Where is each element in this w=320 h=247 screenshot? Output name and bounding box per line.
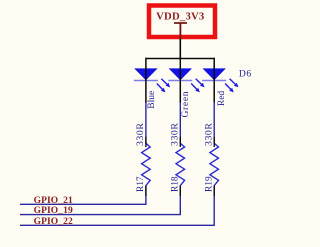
svg-text:Green: Green <box>181 91 191 118</box>
svg-text:330R: 330R <box>204 123 215 146</box>
svg-text:Red: Red <box>217 91 227 107</box>
svg-text:R19: R19 <box>205 176 215 192</box>
resistor R19 pin stubs <box>213 137 215 147</box>
svg-text:GPIO_19: GPIO_19 <box>34 206 73 216</box>
svg-text:330R: 330R <box>135 123 146 146</box>
svg-text:VDD_3V3: VDD_3V3 <box>156 10 204 22</box>
LED D6 red element <box>202 58 238 103</box>
resistor R18 <box>176 143 185 185</box>
power port VDD_3V3 bar <box>174 23 187 40</box>
resistor R19 <box>210 143 219 185</box>
selection box around VDD_3V3 <box>149 6 215 38</box>
resistor R17 <box>142 143 151 185</box>
wire R17 to GPIO_21 <box>20 185 146 204</box>
wire R18 to GPIO_19 <box>20 185 180 214</box>
wire blue column LED to R17 <box>145 102 147 144</box>
LED D6 green element <box>168 58 204 103</box>
wire green column LED to R18 <box>179 102 181 144</box>
svg-text:Blue: Blue <box>147 91 157 109</box>
svg-text:330R: 330R <box>170 123 181 146</box>
wire from VDD_3V3 to D6 common anode <box>179 39 181 59</box>
svg-text:R18: R18 <box>171 176 181 192</box>
wire D6 anode branch horizontal <box>146 58 214 60</box>
LED D6 blue element <box>134 58 170 103</box>
resistor R18 pin stubs <box>179 137 181 147</box>
svg-text:R17: R17 <box>136 176 146 192</box>
resistor R17 pin stubs <box>145 137 147 147</box>
wire red column LED to R19 <box>213 102 215 144</box>
svg-text:GPIO_21: GPIO_21 <box>34 196 73 206</box>
wire R19 to GPIO_22 <box>20 185 214 225</box>
svg-text:D6: D6 <box>239 68 252 79</box>
svg-text:GPIO_22: GPIO_22 <box>34 217 73 227</box>
